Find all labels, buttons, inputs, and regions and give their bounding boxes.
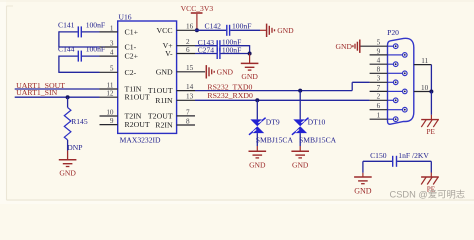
svg-text:4: 4 xyxy=(377,57,381,65)
power VCC_3V3 xyxy=(181,4,214,31)
svg-text:PE: PE xyxy=(427,128,436,136)
earth lead lower PE xyxy=(430,173,432,177)
svg-text:C274: C274 xyxy=(198,46,215,55)
svg-text:100nF: 100nF xyxy=(86,45,105,54)
wire pin1 to C141 xyxy=(82,31,100,33)
U16 pin 14 (T1OUT) stub + number + name xyxy=(148,83,195,95)
designator P20 xyxy=(387,28,399,37)
svg-text:6: 6 xyxy=(377,102,381,110)
value SMBJ15CA of DT10 xyxy=(299,135,337,144)
connector P20 pin 1 stub + number + contact xyxy=(370,112,398,122)
wire RS232_RXD0 xyxy=(195,99,370,101)
svg-text:3: 3 xyxy=(110,39,114,47)
ground GND right of C142 xyxy=(267,24,295,37)
ground lead R145 xyxy=(67,151,69,160)
wire C142 to ground xyxy=(230,29,260,31)
wire C150 right down xyxy=(430,161,432,172)
svg-text:DNP: DNP xyxy=(67,143,82,152)
svg-text:2: 2 xyxy=(186,38,190,46)
ground lead DT10 xyxy=(299,146,301,151)
svg-text:SMBJ15CA: SMBJ15CA xyxy=(299,135,337,144)
U16 pin 4 (C2+) stub + number + name xyxy=(100,49,139,61)
svg-text:8: 8 xyxy=(186,117,190,125)
wire UART1_SIN xyxy=(15,96,100,98)
U16 pin 5 (C2-) stub + number + name xyxy=(100,65,137,77)
ground lead C142 xyxy=(260,29,267,31)
svg-text:5: 5 xyxy=(110,65,114,73)
svg-text:11: 11 xyxy=(421,57,428,65)
svg-text:DT10: DT10 xyxy=(308,118,326,127)
svg-text:R2IN: R2IN xyxy=(155,121,173,130)
ground lead C150 xyxy=(362,173,364,177)
svg-text:UART1_SIN: UART1_SIN xyxy=(16,88,57,97)
svg-text:C142: C142 xyxy=(205,22,222,31)
wire R145 to ground xyxy=(67,140,69,151)
svg-text:15: 15 xyxy=(186,64,194,72)
svg-text:C2-: C2- xyxy=(125,68,137,77)
resistor R145 xyxy=(64,108,88,140)
wire corner to pin5 xyxy=(59,71,100,73)
net label RS232_TXD0 xyxy=(207,82,252,91)
svg-text:CSDN @爱可明志: CSDN @爱可明志 xyxy=(390,188,466,199)
svg-text:T2OUT: T2OUT xyxy=(148,111,173,120)
U16 pin 1 (C1+) stub + number + name xyxy=(100,24,139,36)
svg-text:GND: GND xyxy=(277,26,294,35)
svg-text:GND: GND xyxy=(217,68,234,77)
ground GND under C150 xyxy=(354,177,372,196)
svg-text:R145: R145 xyxy=(71,117,88,126)
svg-text:C2+: C2+ xyxy=(125,52,139,61)
svg-text:MAX3232ID: MAX3232ID xyxy=(120,135,161,144)
svg-text:DT9: DT9 xyxy=(266,118,280,127)
svg-text:GND: GND xyxy=(249,160,266,169)
ground GND at connector pin5 xyxy=(336,40,360,53)
watermark CSDN xyxy=(390,188,466,199)
svg-text:3: 3 xyxy=(377,75,381,83)
U16 pin 2 (V+) stub + number + name xyxy=(163,38,195,50)
wire shell down to PE xyxy=(430,92,432,115)
connector P20 pin 10 stub + number xyxy=(414,84,432,92)
U16 pin 11 (T1IN) stub + number + name xyxy=(100,81,142,93)
wire C141 to corner xyxy=(59,31,78,33)
svg-text:V-: V- xyxy=(165,49,173,58)
net label UART1_SOUT xyxy=(16,81,65,90)
capacitor C144 xyxy=(58,45,105,62)
svg-text:C150: C150 xyxy=(370,151,387,160)
svg-text:C1-: C1- xyxy=(125,43,137,52)
wire TXD0 up to pin3 row xyxy=(351,82,353,90)
ground GND under DT10 xyxy=(291,151,309,169)
svg-text:100nF: 100nF xyxy=(86,20,105,29)
U16 pin 10 (T2IN) stub + number + name xyxy=(100,108,142,120)
wire corner to pin3 xyxy=(59,46,100,48)
capacitor C141 xyxy=(58,20,105,37)
svg-text:4: 4 xyxy=(110,49,114,57)
svg-text:GND: GND xyxy=(354,187,372,196)
designator U16 xyxy=(119,13,132,22)
svg-text:SMBJ15CA: SMBJ15CA xyxy=(256,135,294,144)
earth PE lower xyxy=(421,177,439,193)
svg-text:6: 6 xyxy=(186,46,190,54)
svg-text:1: 1 xyxy=(377,112,381,120)
svg-text:C141: C141 xyxy=(58,20,75,29)
wire UART1_SOUT xyxy=(15,88,100,90)
ground GND under R145 xyxy=(59,160,77,178)
U16 pin 12 (R1OUT) stub + number + name xyxy=(100,90,150,102)
svg-text:8: 8 xyxy=(377,66,381,74)
wire C150 left xyxy=(363,160,392,162)
diode DT10 SMBJ15CA bowtie xyxy=(292,118,309,135)
U16 pin 6 (V-) stub + number + name xyxy=(165,46,195,58)
wire pin16 to C142 xyxy=(195,29,226,31)
svg-text:GND: GND xyxy=(292,160,309,169)
junction caps to ground xyxy=(248,52,252,56)
connector P20 pin 2 stub + number + contact xyxy=(370,93,398,103)
capacitor C274 xyxy=(198,46,242,60)
designator DT10 xyxy=(308,118,326,127)
svg-text:14: 14 xyxy=(186,83,194,91)
svg-text:C1+: C1+ xyxy=(125,27,139,36)
svg-text:13: 13 xyxy=(186,93,194,101)
U16 pin 16 (VCC) stub + number + name xyxy=(157,23,195,35)
wire C150 right xyxy=(397,160,431,162)
svg-text:9: 9 xyxy=(377,47,381,55)
svg-text:P20: P20 xyxy=(387,28,399,37)
wire pin2 to C143 xyxy=(195,45,217,47)
wire DT10 to ground xyxy=(299,133,301,146)
junction DT10 tap xyxy=(298,89,302,93)
connector P20 pin 8 stub + number + contact xyxy=(370,66,408,76)
svg-text:VCC: VCC xyxy=(157,26,173,35)
U16 pin 13 (R1IN) stub + number + name xyxy=(155,93,195,105)
svg-text:5: 5 xyxy=(377,39,381,47)
wire TXD0 down to DT10 xyxy=(299,91,301,120)
value SMBJ15CA of DT9 xyxy=(256,135,294,144)
svg-text:R1IN: R1IN xyxy=(155,96,173,105)
connector P20 pin 4 stub + number + contact xyxy=(370,57,398,67)
U16 pin 7 (T2OUT) stub + number + name xyxy=(148,108,195,120)
capacitor C142 xyxy=(205,22,252,36)
svg-text:GND: GND xyxy=(156,67,173,76)
ground GND at pin15 xyxy=(206,65,233,78)
U16 pin 9 (R2OUT) stub + number + name xyxy=(100,117,150,129)
ground GND under C143 C274 xyxy=(241,63,259,81)
svg-text:R1OUT: R1OUT xyxy=(125,93,150,102)
net label RS232_RXD0 xyxy=(207,91,253,100)
svg-text:R2OUT: R2OUT xyxy=(125,120,150,129)
svg-text:GND: GND xyxy=(59,169,76,178)
wire C144 to corner xyxy=(59,55,78,57)
op-amp/transceiver U16 MAX3232ID body xyxy=(118,21,177,133)
ground GND under DT9 xyxy=(249,151,267,169)
wire C150 left down xyxy=(362,161,364,173)
wire C274 to corner xyxy=(221,53,250,55)
wire shell pins vertical xyxy=(430,65,432,92)
ground lead DT9 xyxy=(256,146,258,151)
wire caps vertical join xyxy=(249,45,251,53)
connector P20 pin 3 stub + number + contact xyxy=(370,75,398,85)
svg-text:GND: GND xyxy=(336,42,353,51)
junction DT9 tap xyxy=(255,98,259,102)
connector P20 pin 9 stub + number + contact xyxy=(370,47,408,57)
capacitor C143 xyxy=(198,38,242,52)
connector P20 pin 6 stub + number + contact xyxy=(370,102,408,112)
U16 pin 3 (C1-) stub + number + name xyxy=(100,39,137,51)
junction VCC on pin16 wire xyxy=(195,28,199,32)
wire RXD0 down to DT9 xyxy=(256,100,258,119)
earth lead upper PE xyxy=(430,115,432,120)
svg-text:1nF /2KV: 1nF /2KV xyxy=(398,151,429,160)
svg-text:7: 7 xyxy=(377,84,381,92)
junction shell at pin10 xyxy=(429,90,433,94)
wire DT9 to ground xyxy=(256,133,258,146)
svg-text:11: 11 xyxy=(107,81,114,89)
wire corner down C2 xyxy=(58,56,60,73)
svg-text:1: 1 xyxy=(110,24,114,32)
svg-text:100nF: 100nF xyxy=(232,22,251,31)
wire corner down C1 xyxy=(58,31,60,47)
ground lead caps xyxy=(249,54,251,64)
svg-text:GND: GND xyxy=(241,72,258,81)
connector P20 body xyxy=(388,38,414,124)
wire C143 to corner xyxy=(221,45,250,47)
wire SIN down to R145 xyxy=(67,97,69,107)
svg-text:12: 12 xyxy=(106,90,114,98)
svg-text:7: 7 xyxy=(186,108,190,116)
connector P20 pin 5 stub + number + contact xyxy=(360,39,398,49)
wire pin4 to C144 xyxy=(82,55,100,57)
connector P20 pin 7 stub + number + contact xyxy=(370,84,408,94)
value MAX3232ID xyxy=(120,135,161,144)
svg-text:10: 10 xyxy=(106,108,114,116)
wire RS232_TXD0 xyxy=(195,90,352,92)
svg-text:C144: C144 xyxy=(58,45,75,54)
svg-text:9: 9 xyxy=(110,117,114,125)
U16 pin 15 (GND) stub + number + name xyxy=(156,64,205,76)
wire pin6 to C274 xyxy=(195,53,217,55)
U16 pin 8 (R2IN) stub + number + name xyxy=(155,117,195,129)
svg-text:U16: U16 xyxy=(119,13,132,22)
junction R145 tap xyxy=(66,95,70,99)
value DNP xyxy=(67,143,82,152)
svg-text:10: 10 xyxy=(421,84,429,92)
svg-text:T1OUT: T1OUT xyxy=(148,86,173,95)
svg-text:VCC_3V3: VCC_3V3 xyxy=(181,4,214,13)
earth PE under connector xyxy=(421,120,439,136)
svg-text:2: 2 xyxy=(377,93,381,101)
wire TXD0 to connector pin3 xyxy=(352,81,369,83)
diode DT9 SMBJ15CA bowtie xyxy=(249,118,266,135)
capacitor C150 xyxy=(370,151,429,167)
connector P20 pin 11 stub + number xyxy=(414,57,432,65)
net label UART1_SIN xyxy=(16,88,57,97)
svg-text:16: 16 xyxy=(186,23,194,31)
svg-text:RS232_RXD0: RS232_RXD0 xyxy=(207,91,253,100)
designator DT9 xyxy=(266,118,280,127)
